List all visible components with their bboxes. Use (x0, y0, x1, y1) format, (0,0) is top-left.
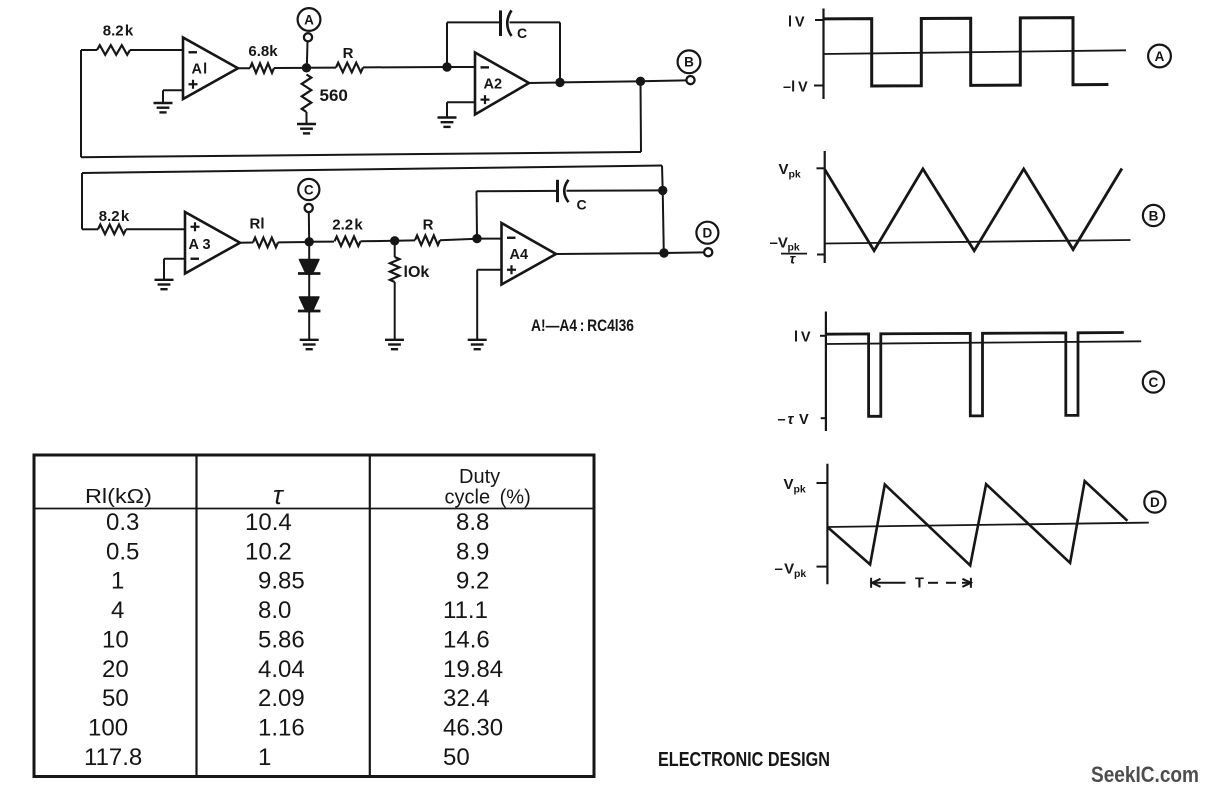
svg-text:10.4: 10.4 (245, 509, 292, 536)
resistor 10k (vertical) (390, 257, 400, 282)
svg-text:R: R (423, 217, 434, 234)
node label C (circle) (1143, 371, 1164, 392)
node node B junction (junction dot) (636, 77, 645, 86)
resistor 560 (vertical) (302, 75, 312, 113)
ground G1 (A1 +) (154, 103, 173, 112)
waveform C: tick 1V (820, 335, 826, 337)
svg-text:5.86: 5.86 (258, 626, 305, 653)
svg-text:pk: pk (794, 568, 806, 580)
node node D junction (junction dot) (659, 248, 668, 257)
wire 560 to ground (306, 112, 308, 124)
svg-text:Rl(kΩ): Rl(kΩ) (85, 486, 152, 508)
resistor 8.2k (top, A1 input) (97, 45, 130, 55)
waveform D: tick -Vpk (817, 566, 829, 568)
resistor R (top) (336, 63, 363, 73)
wire B node to terminal (641, 79, 687, 82)
ground G5 (diodes) (300, 340, 319, 349)
diode D2 (298, 297, 321, 312)
wire diode1 to diode2 (308, 274, 310, 297)
wire into A2 minus (447, 66, 475, 68)
ground G7 (A4 +) (468, 340, 487, 349)
svg-text:0.5: 0.5 (106, 538, 139, 565)
dimension marker T (871, 578, 971, 588)
wire A1 plus down (162, 90, 164, 103)
wire node A up to terminal (306, 42, 309, 68)
wire line2 down (661, 166, 664, 191)
svg-text:8.9: 8.9 (456, 538, 489, 565)
resistor R1 (253, 238, 278, 248)
waveform A: vertical axis (822, 9, 824, 100)
svg-text:50: 50 (102, 685, 129, 712)
wire D node to terminal (664, 251, 704, 254)
svg-text:1: 1 (111, 568, 124, 595)
svg-text:C: C (304, 182, 314, 197)
svg-text:– V: – V (775, 561, 795, 578)
label Vpk (B) (779, 161, 801, 181)
wire A2 fb top left (447, 21, 501, 23)
svg-text:V: V (799, 412, 809, 428)
node label B (circle) (678, 50, 701, 73)
table row 8: 100 | 1.16 | 46.30 (88, 714, 503, 741)
ground G4 (A3 -) (155, 280, 174, 289)
svg-text:–V: –V (770, 235, 788, 252)
svg-text:C: C (1149, 375, 1159, 390)
svg-text:B: B (684, 55, 694, 70)
svg-text:SeekIC.com: SeekIC.com (1091, 762, 1199, 787)
wire R to A4 minus node (440, 239, 477, 241)
table row 9: 117.8 | 1 | 50 (84, 744, 470, 771)
svg-text:8.2 k: 8.2 k (99, 208, 130, 225)
waveform C: vertical axis (825, 312, 827, 432)
waveform D: sawtooth trace (827, 481, 1127, 565)
wire node C up (308, 213, 310, 242)
svg-text:9.2: 9.2 (456, 568, 489, 595)
waveform C: horizontal axis (826, 341, 1141, 344)
table row 2: 0.5 | 10.2 | 8.9 (106, 538, 489, 565)
wire A1 input left (81, 49, 97, 51)
wire A4 fb top right (567, 189, 663, 191)
wire A1 plus left (163, 89, 183, 91)
svg-text:A 3: A 3 (189, 237, 211, 253)
wire B node down (640, 81, 643, 152)
waveform D: horizontal axis (827, 523, 1148, 527)
resistor 2.2k (335, 237, 361, 247)
wire A2 fb up (446, 22, 448, 67)
node node C junction (junction dot) (305, 237, 314, 246)
label Vpk (D) (784, 476, 806, 496)
node node A junction (junction dot) (302, 63, 311, 72)
node label A (circle) (1148, 45, 1171, 68)
table row 3: 1 | 9.85 | 9.2 (111, 568, 489, 595)
wire A3 minus down (163, 259, 165, 280)
wire 10k to ground (394, 282, 396, 340)
svg-text:19.84: 19.84 (443, 656, 503, 683)
terminal C (open circle) (305, 204, 313, 212)
node label D (circle) (1144, 491, 1165, 512)
waveform C: pulse trace (826, 333, 1124, 417)
terminal D (open circle) (704, 248, 712, 256)
node fb/line2 junction (junction dot) (658, 186, 667, 195)
label -Vpk/tau (B) (770, 235, 808, 267)
svg-text:2.09: 2.09 (258, 685, 305, 712)
waveform B: vertical axis (824, 151, 826, 263)
svg-text:T: T (915, 576, 924, 592)
wire 6.8k to node A (274, 67, 307, 69)
svg-text:Duty: Duty (459, 466, 500, 488)
svg-text:A: A (304, 12, 314, 27)
svg-text:A4: A4 (510, 247, 529, 263)
wire A2 out to B node (560, 81, 641, 82)
label -Vpk (D) (775, 561, 807, 581)
waveform A: square wave trace (824, 18, 1109, 86)
svg-text:4.04: 4.04 (258, 656, 305, 683)
waveform A: tick -1V (814, 85, 824, 87)
wire feedback line B-to-A1 (81, 152, 641, 157)
wire A4 out (556, 252, 664, 255)
capacitor C (A2 feedback) (501, 10, 528, 41)
table column divider 1 (195, 455, 197, 777)
svg-text:A2: A2 (484, 77, 503, 93)
wire down to D node (663, 190, 664, 253)
wire feedback line D-to-A3 (82, 166, 662, 174)
svg-text:560: 560 (320, 86, 348, 105)
ground G3 (A2 +) (438, 118, 457, 127)
wire diode2 to ground (308, 312, 310, 340)
wire node A to R (307, 67, 337, 69)
table row 4: 4 | 8.0 | 11.1 (111, 597, 488, 624)
wire A4 plus left (477, 269, 501, 271)
svg-text:D: D (1150, 495, 1160, 510)
wire node C to diode 1 (308, 242, 310, 260)
svg-text:–: – (778, 412, 787, 428)
svg-text:1: 1 (258, 744, 271, 771)
svg-text:0.3: 0.3 (106, 509, 139, 536)
resistor 8.2k (lower, A3 input) (98, 225, 126, 235)
waveform D: vertical axis (826, 464, 828, 585)
waveform C: tick -tauV (821, 417, 826, 419)
node label D (circle) (696, 222, 718, 244)
svg-text:32.4: 32.4 (443, 685, 490, 712)
table row 7: 50 | 2.09 | 32.4 (102, 685, 490, 712)
svg-text:14.6: 14.6 (443, 626, 490, 653)
svg-text:pk: pk (789, 169, 801, 181)
label -tauV (C) (778, 412, 810, 428)
ground G2 (560) (297, 124, 316, 133)
svg-text:ELECTRONIC DESIGN: ELECTRONIC DESIGN (658, 748, 830, 771)
svg-text:l V: l V (788, 15, 805, 31)
waveform B: tick Vpk (817, 167, 825, 169)
wire A2 out (529, 82, 560, 85)
svg-text:C: C (577, 197, 587, 213)
op-amp A4 (502, 223, 557, 285)
svg-text:pk: pk (794, 484, 806, 496)
wire A4 fb up (476, 191, 479, 238)
svg-text:A!—A4 : RC4l36: A!—A4 : RC4l36 (531, 317, 634, 335)
wire 8.2k to A1 minus (130, 49, 183, 51)
table row 6: 20 | 4.04 | 19.84 (102, 656, 503, 683)
capacitor C (A4 feedback) (558, 180, 587, 213)
node A4 minus node (junction dot) (472, 234, 481, 243)
wire A4 fb top left (477, 190, 558, 192)
svg-text:B: B (1149, 208, 1159, 223)
wire A3 minus left (164, 258, 185, 260)
node label A (circle) (298, 8, 321, 31)
wire 8.2k to A3 plus (126, 228, 185, 230)
svg-text:D: D (703, 226, 713, 241)
svg-text:2.2 k: 2.2 k (332, 217, 363, 234)
node A2 minus node (junction dot) (442, 62, 451, 71)
resistor 6.8k (250, 63, 274, 73)
svg-text:11.1: 11.1 (443, 597, 488, 624)
waveform D: tick Vpk (817, 482, 829, 484)
svg-text:10.2: 10.2 (245, 538, 292, 565)
table row 5: 10 | 5.86 | 14.6 (102, 626, 490, 653)
resistor R (lower) (415, 235, 440, 245)
wire R1 to node C (278, 241, 309, 243)
svg-text:117.8: 117.8 (84, 744, 142, 771)
svg-text:l V: l V (794, 330, 811, 346)
table header Duty cycle (%) (445, 466, 531, 509)
wire into A4 minus (477, 238, 502, 240)
wire A2 plus down (446, 102, 448, 117)
waveform B: tick -Vpk/tau (817, 254, 825, 256)
svg-text:cycle (%): cycle (%) (445, 487, 531, 509)
op-amp A3 (185, 212, 240, 274)
op-amp A1 (183, 38, 238, 100)
svg-text:6.8k: 6.8k (248, 43, 278, 60)
svg-text:–l V: –l V (783, 80, 808, 96)
waveform A: horizontal axis (824, 50, 1127, 54)
svg-text:V: V (784, 476, 794, 493)
wire A4 plus down (476, 270, 478, 340)
waveform B: triangle wave trace (825, 169, 1122, 251)
terminal B (open circle) (686, 76, 694, 84)
diode D1 (298, 260, 321, 275)
table column divider 2 (369, 455, 371, 777)
waveform B: horizontal axis (825, 240, 1131, 244)
svg-text:A: A (1155, 49, 1165, 64)
table outer border (34, 455, 594, 777)
svg-text:4: 4 (111, 597, 124, 624)
op-amp A2 (475, 53, 529, 115)
svg-text:8.2 k: 8.2 k (103, 23, 134, 40)
waveform A: tick +1V (815, 19, 824, 21)
svg-text:R: R (343, 45, 354, 62)
wire A2 fb down (559, 22, 561, 82)
terminal A (open circle) (304, 33, 312, 41)
wire A1 out (238, 67, 250, 69)
wire 2.2k to 10k node (361, 240, 395, 243)
svg-text:V: V (779, 161, 789, 178)
wire node C to 2.2k (309, 241, 334, 243)
node label B (circle) (1143, 205, 1164, 226)
node 10k node junction (junction dot) (390, 236, 399, 245)
ground G6 (10k) (385, 340, 404, 349)
svg-text:A l: A l (192, 62, 208, 78)
svg-text:Rl: Rl (250, 216, 265, 233)
wire R to A2 minus node (363, 66, 447, 68)
wire node to R (lower) (395, 239, 415, 241)
svg-text:10: 10 (102, 626, 129, 653)
svg-text:lOk: lOk (404, 264, 430, 281)
wire left feedback vertical (top loop) (80, 50, 82, 157)
wire node to 10k (394, 241, 396, 257)
table row 1: 0.3 | 10.4 | 8.8 (106, 509, 489, 536)
svg-text:100: 100 (88, 714, 128, 741)
node label C (circle) (298, 179, 319, 200)
svg-text:1.16: 1.16 (258, 714, 305, 741)
wire A2 fb top right (510, 21, 561, 23)
wire A2 plus left (447, 101, 475, 103)
svg-text:8.8: 8.8 (456, 509, 489, 536)
wire A3 input left (82, 228, 98, 230)
svg-text:46.30: 46.30 (443, 714, 503, 741)
svg-text:9.85: 9.85 (258, 568, 305, 595)
svg-text:8.0: 8.0 (258, 597, 291, 624)
svg-text:τ: τ (788, 412, 797, 428)
wire left vertical (lower loop) (81, 173, 83, 229)
svg-text:20: 20 (102, 656, 129, 683)
table header separator (34, 508, 594, 510)
svg-text:C: C (517, 25, 527, 41)
wire A3 out (240, 242, 253, 244)
node A2 output junction (junction dot) (555, 78, 564, 87)
svg-text:50: 50 (443, 744, 470, 771)
